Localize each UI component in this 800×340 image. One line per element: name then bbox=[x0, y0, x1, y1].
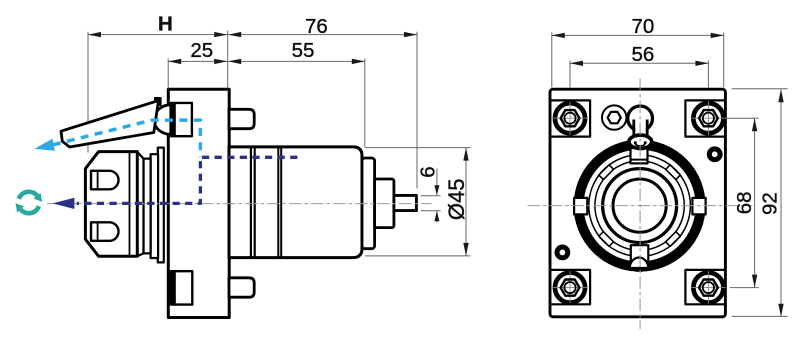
dowel hole top-right bbox=[709, 149, 720, 160]
diagonal slot NW bbox=[599, 165, 614, 180]
clamp bolt head (dome) bbox=[154, 105, 171, 135]
coolant arrow cyan bbox=[34, 139, 54, 151]
svg-text:55: 55 bbox=[292, 39, 315, 62]
svg-text:Ø45: Ø45 bbox=[444, 179, 469, 221]
side slot right bbox=[692, 198, 705, 215]
output shaft bbox=[394, 195, 417, 210]
rotation icon (teal) bbox=[19, 192, 39, 213]
centerline vertical (right view) bbox=[639, 79, 641, 330]
spacer ring C (rear, tallest) bbox=[158, 148, 164, 263]
svg-text:25: 25 bbox=[190, 39, 213, 62]
ring circle r50.8 bbox=[589, 155, 691, 257]
collet cone bbox=[137, 152, 143, 256]
body section line 2 bbox=[254, 147, 256, 258]
spacer ring A bbox=[144, 159, 151, 254]
big nut: outer thick ring bbox=[579, 145, 701, 267]
ext lines 70 bbox=[551, 33, 553, 88]
body section line 1 bbox=[250, 147, 252, 258]
centerline (left view) bbox=[47, 203, 432, 205]
output step 2 bbox=[375, 179, 394, 228]
dim line H / 76 bbox=[88, 34, 417, 36]
dim line 68 bbox=[754, 118, 756, 287]
body section line 3 bbox=[277, 147, 279, 258]
output step 1 bbox=[362, 158, 375, 249]
arrows 76 bbox=[228, 32, 241, 37]
bolt pocket top-right bbox=[685, 100, 725, 136]
diagonal slot SW bbox=[599, 232, 614, 247]
coolant arrow navy bbox=[53, 198, 75, 209]
collet cap circle bbox=[603, 169, 677, 243]
ring circle r44.7 bbox=[595, 161, 684, 250]
flange plate (side) bbox=[168, 89, 229, 317]
flange plate (front) bbox=[550, 89, 725, 317]
arrows 68 bbox=[752, 118, 757, 131]
bottom tab bbox=[631, 245, 649, 261]
pin cylinder bbox=[635, 118, 646, 139]
dim d45 ext lines bbox=[365, 147, 471, 149]
bolt top-left bbox=[553, 102, 587, 136]
coolant path navy bbox=[77, 157, 298, 203]
dim line 25 / 55 bbox=[168, 60, 365, 62]
pin circle bbox=[628, 106, 653, 131]
top tab bbox=[631, 148, 648, 163]
bolt pocket bottom-left bbox=[550, 270, 590, 304]
svg-text:92: 92 bbox=[758, 192, 781, 215]
dim 6 line bbox=[436, 169, 438, 195]
dim 6 ext lines bbox=[421, 195, 441, 197]
bore circle bbox=[613, 179, 666, 232]
svg-text:H: H bbox=[158, 12, 173, 35]
spacer ring B bbox=[151, 154, 159, 258]
svg-text:56: 56 bbox=[631, 43, 654, 66]
pin end ellipse bbox=[629, 135, 652, 148]
coolant port block bottom bbox=[229, 278, 254, 297]
dim line 70 bbox=[552, 34, 724, 36]
bolt pocket bottom-right bbox=[685, 270, 725, 304]
ext lines 68 bbox=[722, 117, 759, 119]
ext lines 56 bbox=[569, 61, 571, 88]
lever pivot nub bbox=[155, 98, 161, 105]
ER collet nut body bbox=[85, 152, 137, 257]
arrows H bbox=[88, 32, 101, 37]
arrows d45 bbox=[463, 148, 468, 161]
dim line 92 bbox=[780, 89, 782, 316]
svg-text:70: 70 bbox=[631, 15, 654, 38]
clamp screw block top bbox=[171, 103, 192, 136]
collet nut inner line bbox=[129, 152, 131, 257]
arrows 6 bbox=[434, 185, 439, 195]
coolant path cyan bbox=[53, 120, 201, 157]
coolant port block top bbox=[229, 109, 254, 128]
ext line 55 right bbox=[364, 59, 366, 147]
small set screw bbox=[602, 105, 626, 129]
arrows 92 bbox=[778, 89, 783, 102]
arrows 55 bbox=[228, 59, 241, 64]
svg-text:6: 6 bbox=[417, 166, 440, 177]
svg-text:68: 68 bbox=[733, 191, 756, 214]
dim line 56 bbox=[570, 62, 708, 64]
bolt top-right bbox=[691, 102, 725, 136]
side slot left bbox=[574, 198, 587, 215]
bottom dome notch bbox=[630, 258, 648, 269]
collet nut slot (bottom) bbox=[91, 222, 119, 241]
clamp screw block bottom bbox=[171, 271, 193, 304]
bolt pocket top-left bbox=[550, 100, 590, 136]
bolt bottom-right bbox=[691, 271, 725, 304]
ext lines 92 bbox=[732, 88, 788, 90]
arrows 25 bbox=[168, 59, 181, 64]
arrows 70 bbox=[552, 33, 565, 38]
gearbox body bbox=[229, 147, 362, 258]
centerline horizontal (right view) bbox=[528, 205, 753, 207]
diagonal slot SE bbox=[666, 232, 681, 247]
body section line 4 bbox=[280, 147, 282, 258]
clamp lever bbox=[61, 101, 159, 148]
bottom wedge bbox=[633, 268, 646, 272]
ext line H left (under lever) bbox=[87, 32, 89, 153]
svg-text:76: 76 bbox=[305, 15, 328, 38]
bolt bottom-left bbox=[553, 271, 587, 304]
dim d45 line bbox=[465, 148, 467, 256]
collet nut slot (top) bbox=[91, 171, 119, 190]
pin end slot marks bbox=[635, 144, 645, 146]
ext line 25 left bbox=[167, 59, 169, 89]
arrows 56 bbox=[570, 61, 583, 66]
ext line 76 right bbox=[416, 32, 418, 189]
diagonal slot NE bbox=[666, 165, 681, 180]
ext line shared at flange face bbox=[227, 31, 229, 89]
dowel hole bottom-left bbox=[557, 247, 568, 258]
